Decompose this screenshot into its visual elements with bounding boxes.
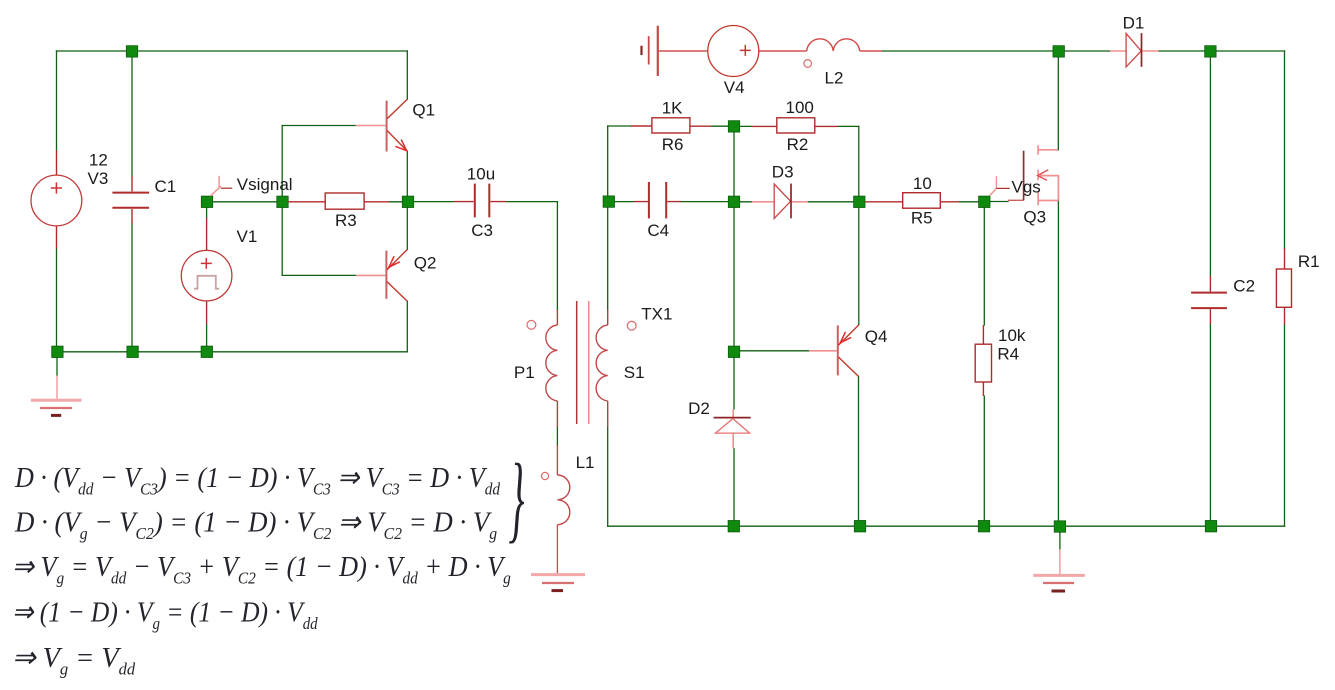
transformer TX1 phase dot P1: [527, 320, 536, 329]
svg-text:V4: V4: [724, 78, 745, 97]
node bottom-left V3 junction: [52, 346, 63, 357]
node bottom rail D2 junction: [728, 521, 739, 532]
diode D2: [714, 409, 751, 449]
svg-text:Q3: Q3: [1023, 208, 1046, 227]
svg-text:D3: D3: [772, 163, 794, 182]
ground GND2 under L1: [531, 575, 585, 591]
wire V3 column: [56, 51, 58, 352]
node R5 Vgs junction: [979, 196, 990, 207]
wire top-left rail: [57, 50, 408, 52]
ground GND3 at V4: [642, 26, 658, 76]
svg-text:S1: S1: [624, 363, 645, 382]
svg-text:D · (Vg − VC2) = (1 − D) · VC2: D · (Vg − VC2) = (1 − D) · VC2 ⇒ VC2 = D…: [14, 507, 497, 544]
wire mid rail C4 segment: [614, 201, 728, 203]
wire Q4 base horizontal: [734, 350, 809, 352]
node D3 R5 junction: [854, 196, 865, 207]
node Vsignal junction: [277, 196, 288, 207]
svg-text:R6: R6: [662, 135, 684, 154]
inductor L1: [557, 445, 569, 574]
svg-text:12: 12: [89, 151, 108, 170]
transistor Q1: [356, 99, 408, 151]
transformer TX1 core: [577, 301, 589, 424]
wire top rail right: [882, 50, 1285, 52]
wire Q1 emitter to Q2 emitter: [406, 151, 408, 249]
wire C1 column: [131, 52, 133, 352]
wire Q3 source column: [1057, 201, 1059, 527]
transistor Q4: [809, 325, 859, 377]
svg-text:⇒ Vg = Vdd: ⇒ Vg = Vdd: [12, 643, 136, 679]
transformer TX1 phase dot S1: [627, 321, 636, 330]
wire mid rail D3 segment: [740, 201, 853, 203]
wire Q2 collector to bottom-left rail: [406, 301, 408, 352]
node S1 mid rail junction: [603, 196, 614, 207]
svg-text:⇒ (1 − D) · Vg = (1 − D) · Vdd: ⇒ (1 − D) · Vg = (1 − D) · Vdd: [12, 596, 319, 633]
transistor Q2: [356, 249, 407, 301]
svg-text:Vgs: Vgs: [1012, 178, 1041, 197]
wire Q1 base horizontal: [282, 125, 355, 127]
diode D1: [1110, 33, 1159, 67]
node top rail D1 cathode junction: [1205, 46, 1216, 57]
svg-text:Q4: Q4: [865, 327, 888, 346]
svg-text:100: 100: [786, 98, 814, 117]
resistor R6: [631, 118, 711, 133]
capacitor C4: [634, 182, 681, 218]
node bottom-left C1 junction: [127, 346, 138, 357]
svg-text:10u: 10u: [467, 165, 495, 184]
voltage source V3: [31, 151, 82, 249]
wire x734 column: [733, 126, 735, 526]
wire R1 column: [1284, 51, 1286, 526]
probe Vgs pin: [990, 176, 1010, 195]
wire C2 column: [1209, 51, 1211, 526]
svg-text:1K: 1K: [662, 99, 683, 118]
node bottom rail C2 junction: [1205, 521, 1216, 532]
wire bottom-left rail: [57, 351, 407, 353]
node bottom-left V1 junction: [201, 346, 212, 357]
svg-text:Q2: Q2: [414, 254, 437, 273]
svg-text:10: 10: [913, 174, 932, 193]
svg-text:V1: V1: [237, 227, 258, 246]
voltage source V4: [659, 26, 807, 77]
resistor R2: [752, 118, 838, 133]
wire R2 row: [740, 125, 859, 127]
inductor L2 phase dot: [804, 60, 812, 68]
capacitor C2: [1191, 276, 1227, 324]
wire C3 row: [414, 201, 557, 203]
svg-text:V3: V3: [88, 169, 109, 188]
node top-left C1 junction: [126, 46, 137, 57]
node Q4 base D2 junction: [728, 346, 739, 357]
node bottom rail Q4 junction: [854, 521, 865, 532]
wire mid rail R5 segment: [959, 201, 979, 203]
wire R6 row left: [608, 125, 729, 127]
svg-text:⇒ Vg = Vdd − VC3 + VC2 = (1 −: ⇒ Vg = Vdd − VC3 + VC2 = (1 − D) · Vdd +…: [12, 550, 511, 588]
wire bottom rail: [608, 525, 1285, 527]
transformer TX1 primary P1: [546, 310, 558, 427]
resistor R1: [1276, 248, 1291, 325]
wire Q2 base horizontal: [282, 274, 356, 276]
node R3 C3 junction: [402, 196, 413, 207]
svg-text:Vsignal: Vsignal: [237, 175, 293, 194]
svg-text:L2: L2: [825, 69, 844, 88]
ground GND1: [31, 376, 82, 416]
wire R4 column: [983, 202, 985, 526]
wire C3 to transformer P1: [556, 202, 558, 445]
svg-text:10k: 10k: [998, 326, 1026, 345]
svg-text:TX1: TX1: [641, 305, 672, 324]
capacitor C1: [112, 176, 149, 224]
node V1 mid-left junction: [201, 196, 212, 207]
svg-text:D2: D2: [688, 399, 710, 418]
capacitor C3: [454, 184, 506, 218]
svg-text:R1: R1: [1298, 252, 1320, 271]
diode D3: [752, 184, 808, 219]
resistor R5: [865, 193, 959, 209]
svg-text:Q1: Q1: [412, 101, 435, 120]
wire Vgs node to Q3 gate: [990, 201, 1008, 203]
wire ground stem bottom-left: [56, 358, 58, 376]
svg-text:D · (Vdd − VC3) = (1 − D) · VC: D · (Vdd − VC3) = (1 − D) · VC3 ⇒ VC3 = …: [14, 461, 501, 499]
probe Vsignal pin: [210, 176, 232, 196]
svg-text:D1: D1: [1123, 14, 1145, 33]
svg-text:R3: R3: [335, 211, 357, 230]
svg-text:L1: L1: [576, 453, 595, 472]
wire Q1 Q2 base column: [281, 126, 283, 276]
resistor R3: [288, 193, 389, 209]
wire mid-left rail Vsignal node: [207, 201, 403, 203]
node R6 R2 junction: [728, 121, 739, 132]
svg-text:C1: C1: [155, 177, 177, 196]
wire S1 column: [607, 126, 609, 526]
wire Q3 drain column: [1057, 51, 1059, 150]
wire Q4 emitter up: [858, 202, 860, 325]
inductor L1 phase dot: [541, 472, 548, 479]
ground GND4 bottom-right: [1033, 549, 1085, 591]
svg-text:R4: R4: [997, 345, 1019, 364]
wire Q1 collector to top rail: [406, 51, 408, 99]
wire R2 corner down: [858, 126, 860, 196]
svg-text:C3: C3: [471, 221, 493, 240]
wire V1 column: [206, 203, 208, 352]
MOSFET Q3: [1008, 145, 1058, 205]
resistor R4: [975, 325, 991, 396]
node top rail Q3 drain junction: [1053, 46, 1064, 57]
inductor L2: [807, 39, 882, 51]
svg-text:R5: R5: [911, 209, 933, 228]
svg-text:}: }: [509, 445, 525, 552]
svg-text:C4: C4: [647, 221, 669, 240]
svg-text:C2: C2: [1233, 277, 1255, 296]
svg-text:R2: R2: [787, 135, 809, 154]
wire Q4 collector down: [858, 376, 860, 526]
node bottom rail R4 junction: [978, 521, 989, 532]
svg-text:P1: P1: [514, 363, 535, 382]
wire ground stem bottom-right: [1059, 532, 1061, 549]
transformer TX1 secondary S1: [596, 310, 608, 427]
node bottom rail ground junction: [1054, 521, 1065, 532]
node C4 D3 junction: [728, 196, 739, 207]
pulse source V1: [181, 218, 232, 325]
